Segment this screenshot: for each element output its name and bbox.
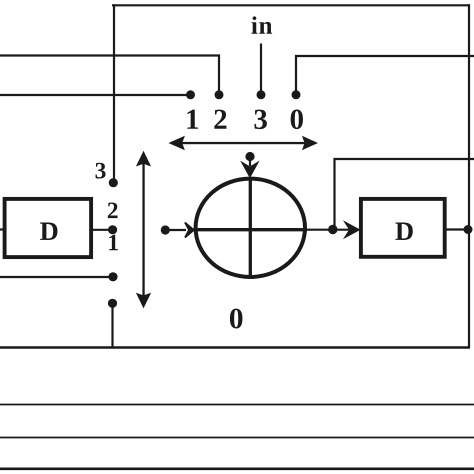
wire left register D output to contact [91,229,112,231]
wire from left to lower contact [0,276,112,278]
wire adder to register D right [307,229,352,231]
register D1 (left) [5,199,92,257]
label 3 (top row) [254,110,266,129]
frame bottom edge / output line [0,346,470,348]
contact dot 1 (top row) [186,90,195,99]
frame left edge / contact bus [113,4,115,181]
bottom rule 2 [0,437,474,439]
wire adder cross horizontal [194,228,308,231]
contact dot lower (left column) [108,272,117,281]
horizontal selector arrowhead left [168,136,185,150]
arrowhead into adder (top) [242,163,257,177]
arrowhead into adder (left) [185,223,194,238]
wire register D right output [446,228,469,230]
horizontal selector arrow shaft [178,142,306,144]
horizontal selector arrowhead right [302,136,318,150]
contact dot 2 (top row) [215,90,224,99]
label in [251,16,272,33]
label 0 (top row) [291,110,303,130]
bottom rule 1 [0,404,474,406]
wire stub into left register D [0,228,5,230]
label 2 (left column) [108,203,118,219]
frame top edge [112,4,470,6]
contact dot 2-1 (left column, register output) [108,225,117,234]
wire input dot to adder [165,229,186,231]
contact dot 3 / in (top row) [257,90,266,99]
wire to contact 2 (from left, bends down) [0,56,219,92]
adder circle (XOR) [196,179,305,277]
wire in stem [260,44,262,92]
node adder input [161,225,170,234]
arrowhead into register D2 [345,223,358,237]
wire bottom contact to output line [111,304,113,347]
junction node adder output / feedback [328,225,337,234]
contact dot 0 (top row) [292,90,301,99]
bottom rule 3 [0,467,474,470]
label 0 (bottom center) [230,309,243,329]
wire to contact 1 (from left) [0,94,190,96]
frame right edge [468,4,470,348]
contact dot 0 (left column bottom) [108,299,117,308]
wire adder cross vertical [249,177,252,279]
feedback wire right (bends down to adder output) [335,159,474,227]
label D1 [40,223,57,240]
label 1 (left column) [109,235,118,251]
label D2 [395,223,412,240]
node adder top input [245,152,254,161]
label 2 (top row) [214,110,226,129]
wire to contact 0 (from right, bends down) [296,56,474,91]
label 1 (top row) [187,110,198,129]
register D2 (right) [361,199,445,257]
node output right edge [464,225,473,234]
vertical selector arrowhead down [136,293,151,309]
contact dot 3 (left column) [109,178,118,187]
vertical selector arrowhead up [136,151,151,167]
label 3 (left column) [96,163,106,179]
wire adder top input stem [249,158,251,166]
vertical selector arrow shaft [142,160,144,300]
